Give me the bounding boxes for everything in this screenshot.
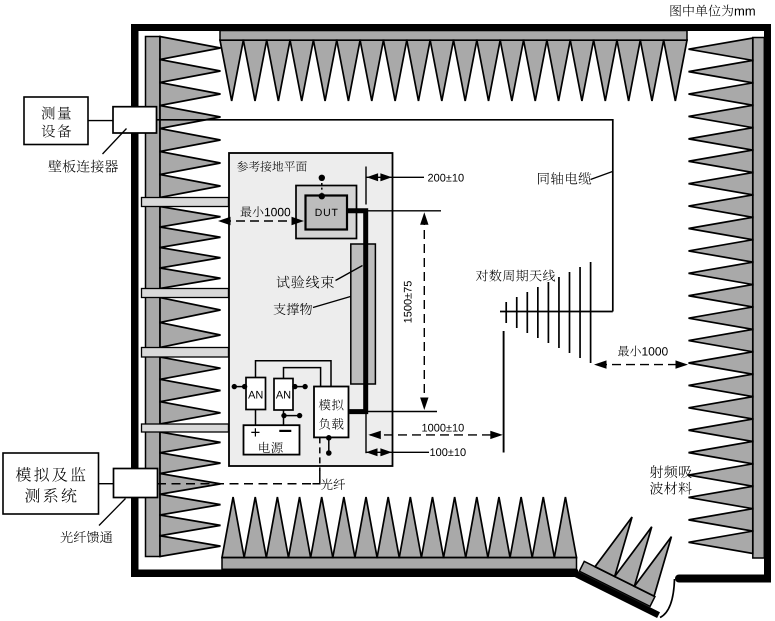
dimension 最小1000 left dashed line xyxy=(222,220,300,222)
dimension 200 line xyxy=(366,176,424,178)
label 100±10 xyxy=(430,448,465,456)
DUT support block xyxy=(296,186,357,239)
harness cable over support xyxy=(363,244,368,384)
measuring equipment box 测量设备 xyxy=(24,97,88,145)
chamber bottom wall left segment xyxy=(131,570,578,578)
leader 壁板连接器 xyxy=(103,129,127,155)
wire system to feedthrough xyxy=(99,483,114,485)
absorber cone row top wall xyxy=(220,31,687,102)
door absorber panel xyxy=(573,504,693,615)
optical fiber corner xyxy=(313,470,320,484)
wire stub below AN2 xyxy=(284,415,300,417)
DUT box xyxy=(306,196,348,230)
dotted link above DUT xyxy=(321,183,323,193)
wire AN1 to load top xyxy=(256,361,332,387)
dimension 100 line xyxy=(366,451,429,453)
wire AN2 bottom to power xyxy=(283,410,285,425)
label 壁板连接器 xyxy=(49,160,119,173)
dimension 1000 dashed line xyxy=(370,434,500,436)
label 射频吸 xyxy=(650,465,692,478)
dimension 1000 arrowhead left xyxy=(368,431,381,439)
fiber feedthrough box xyxy=(114,469,158,498)
label 1000±10 xyxy=(422,424,464,432)
leader 同轴电缆 xyxy=(591,172,613,180)
label DUT xyxy=(316,209,338,216)
dot AN1 stub outer xyxy=(232,384,237,389)
label plus terminal xyxy=(251,428,259,436)
label 模拟 xyxy=(319,399,344,410)
coaxial cable 同轴电缆 xyxy=(157,120,613,312)
left wall absorber support bars xyxy=(142,198,229,433)
leader 光纤馈通 xyxy=(99,499,126,526)
wire AN1 left stub xyxy=(234,386,246,388)
label 光纤 xyxy=(321,479,345,490)
dot below AN2 left xyxy=(281,413,286,418)
label 光纤馈通 xyxy=(60,531,112,543)
dot AN2 stub inner xyxy=(292,384,297,389)
dimension 最小1000 left arrowhead right xyxy=(292,217,305,225)
units note 图中单位为mm xyxy=(671,5,755,17)
dimension 最小1000 left arrowhead left xyxy=(218,217,231,225)
dot below AN2 right xyxy=(297,413,302,418)
wire load bottom stub xyxy=(328,437,330,453)
support block 支撑物 xyxy=(351,244,376,384)
label 设备 xyxy=(42,124,71,137)
label 参考接地平面 xyxy=(237,161,307,172)
dimension 100 arrowhead left xyxy=(366,448,378,456)
reference ground plane 参考接地平面 xyxy=(229,153,393,466)
wire AN2 right stub xyxy=(293,386,305,388)
dimension 1500 arrowhead down xyxy=(420,398,428,411)
label 最小1000 left xyxy=(241,206,291,217)
leader 支撑物 xyxy=(313,297,351,308)
absorber cone column right wall xyxy=(689,38,765,559)
absorber cone row bottom wall xyxy=(222,497,577,569)
wire AN1 bottom to power xyxy=(255,410,257,426)
AN box 2 xyxy=(274,379,293,411)
dot load bottom upper xyxy=(326,435,332,441)
power supply box 电源 xyxy=(244,425,300,454)
label 测量 xyxy=(42,107,71,120)
chamber top wall xyxy=(131,24,771,31)
label 1500±75 rotated xyxy=(404,281,412,322)
dimension 最小1000 right dashed line xyxy=(598,364,684,366)
minus terminal xyxy=(279,430,291,432)
label 200±10 xyxy=(428,174,464,182)
absorber cone column left wall xyxy=(146,37,221,557)
bulkhead connector box xyxy=(113,107,157,133)
dimension 1500 arrowhead up xyxy=(420,212,428,225)
dot AN2 stub outer xyxy=(302,384,307,389)
dimension 1500 extension bottom xyxy=(368,411,437,413)
dimension 200 arrowhead right xyxy=(380,173,392,181)
optical fiber horizontal dashed xyxy=(158,483,312,485)
monitoring system box 模拟及监测系统 xyxy=(3,453,99,514)
label 支撑物 xyxy=(274,303,313,315)
label 最小1000 right xyxy=(618,346,668,357)
dimension 100 vertical extension xyxy=(365,414,367,453)
label 同轴电缆 xyxy=(538,172,591,185)
dimension 200 tick line xyxy=(365,167,367,205)
dimension 1500 dashed line xyxy=(423,216,425,406)
antenna mast xyxy=(503,331,505,453)
label 波材料 xyxy=(650,482,692,495)
label 负载 xyxy=(319,418,344,430)
wire AN2 to load top xyxy=(284,368,321,387)
label 试验线束 xyxy=(277,276,334,289)
dot on DUT support top xyxy=(319,193,325,199)
label 对数周期天线 xyxy=(476,270,555,282)
label 测系统 xyxy=(25,488,76,503)
test harness cable 试验线束 xyxy=(347,211,366,412)
dimension 最小1000 right arrowhead right xyxy=(676,360,689,368)
dimension 100 arrowhead right xyxy=(380,448,392,456)
dot AN1 stub inner xyxy=(242,384,247,389)
dimension 最小1000 right arrowhead left xyxy=(594,360,607,368)
AN box 1 xyxy=(246,378,266,410)
ground dot above DUT xyxy=(319,175,325,181)
label AN2 xyxy=(276,391,290,399)
chamber left wall xyxy=(131,24,139,577)
label 电源 xyxy=(259,442,282,453)
log periodic antenna 对数周期天线 xyxy=(500,262,613,363)
optical fiber vertical dashed xyxy=(319,437,321,471)
label 模拟及监 xyxy=(16,467,86,482)
door swing arc xyxy=(660,579,675,618)
simulated load box 模拟负载 xyxy=(314,387,349,438)
dot load bottom lower xyxy=(326,450,332,456)
wire equipment to connector xyxy=(88,120,113,122)
dimension 1500 extension top xyxy=(368,210,442,212)
leader 试验线束 xyxy=(336,266,363,281)
chamber bottom wall right segment xyxy=(679,575,767,583)
dimension 200 arrowhead left xyxy=(367,173,379,181)
label AN1 xyxy=(248,391,262,399)
chamber right wall xyxy=(764,24,771,583)
dimension 1000 arrowhead right xyxy=(490,431,503,439)
